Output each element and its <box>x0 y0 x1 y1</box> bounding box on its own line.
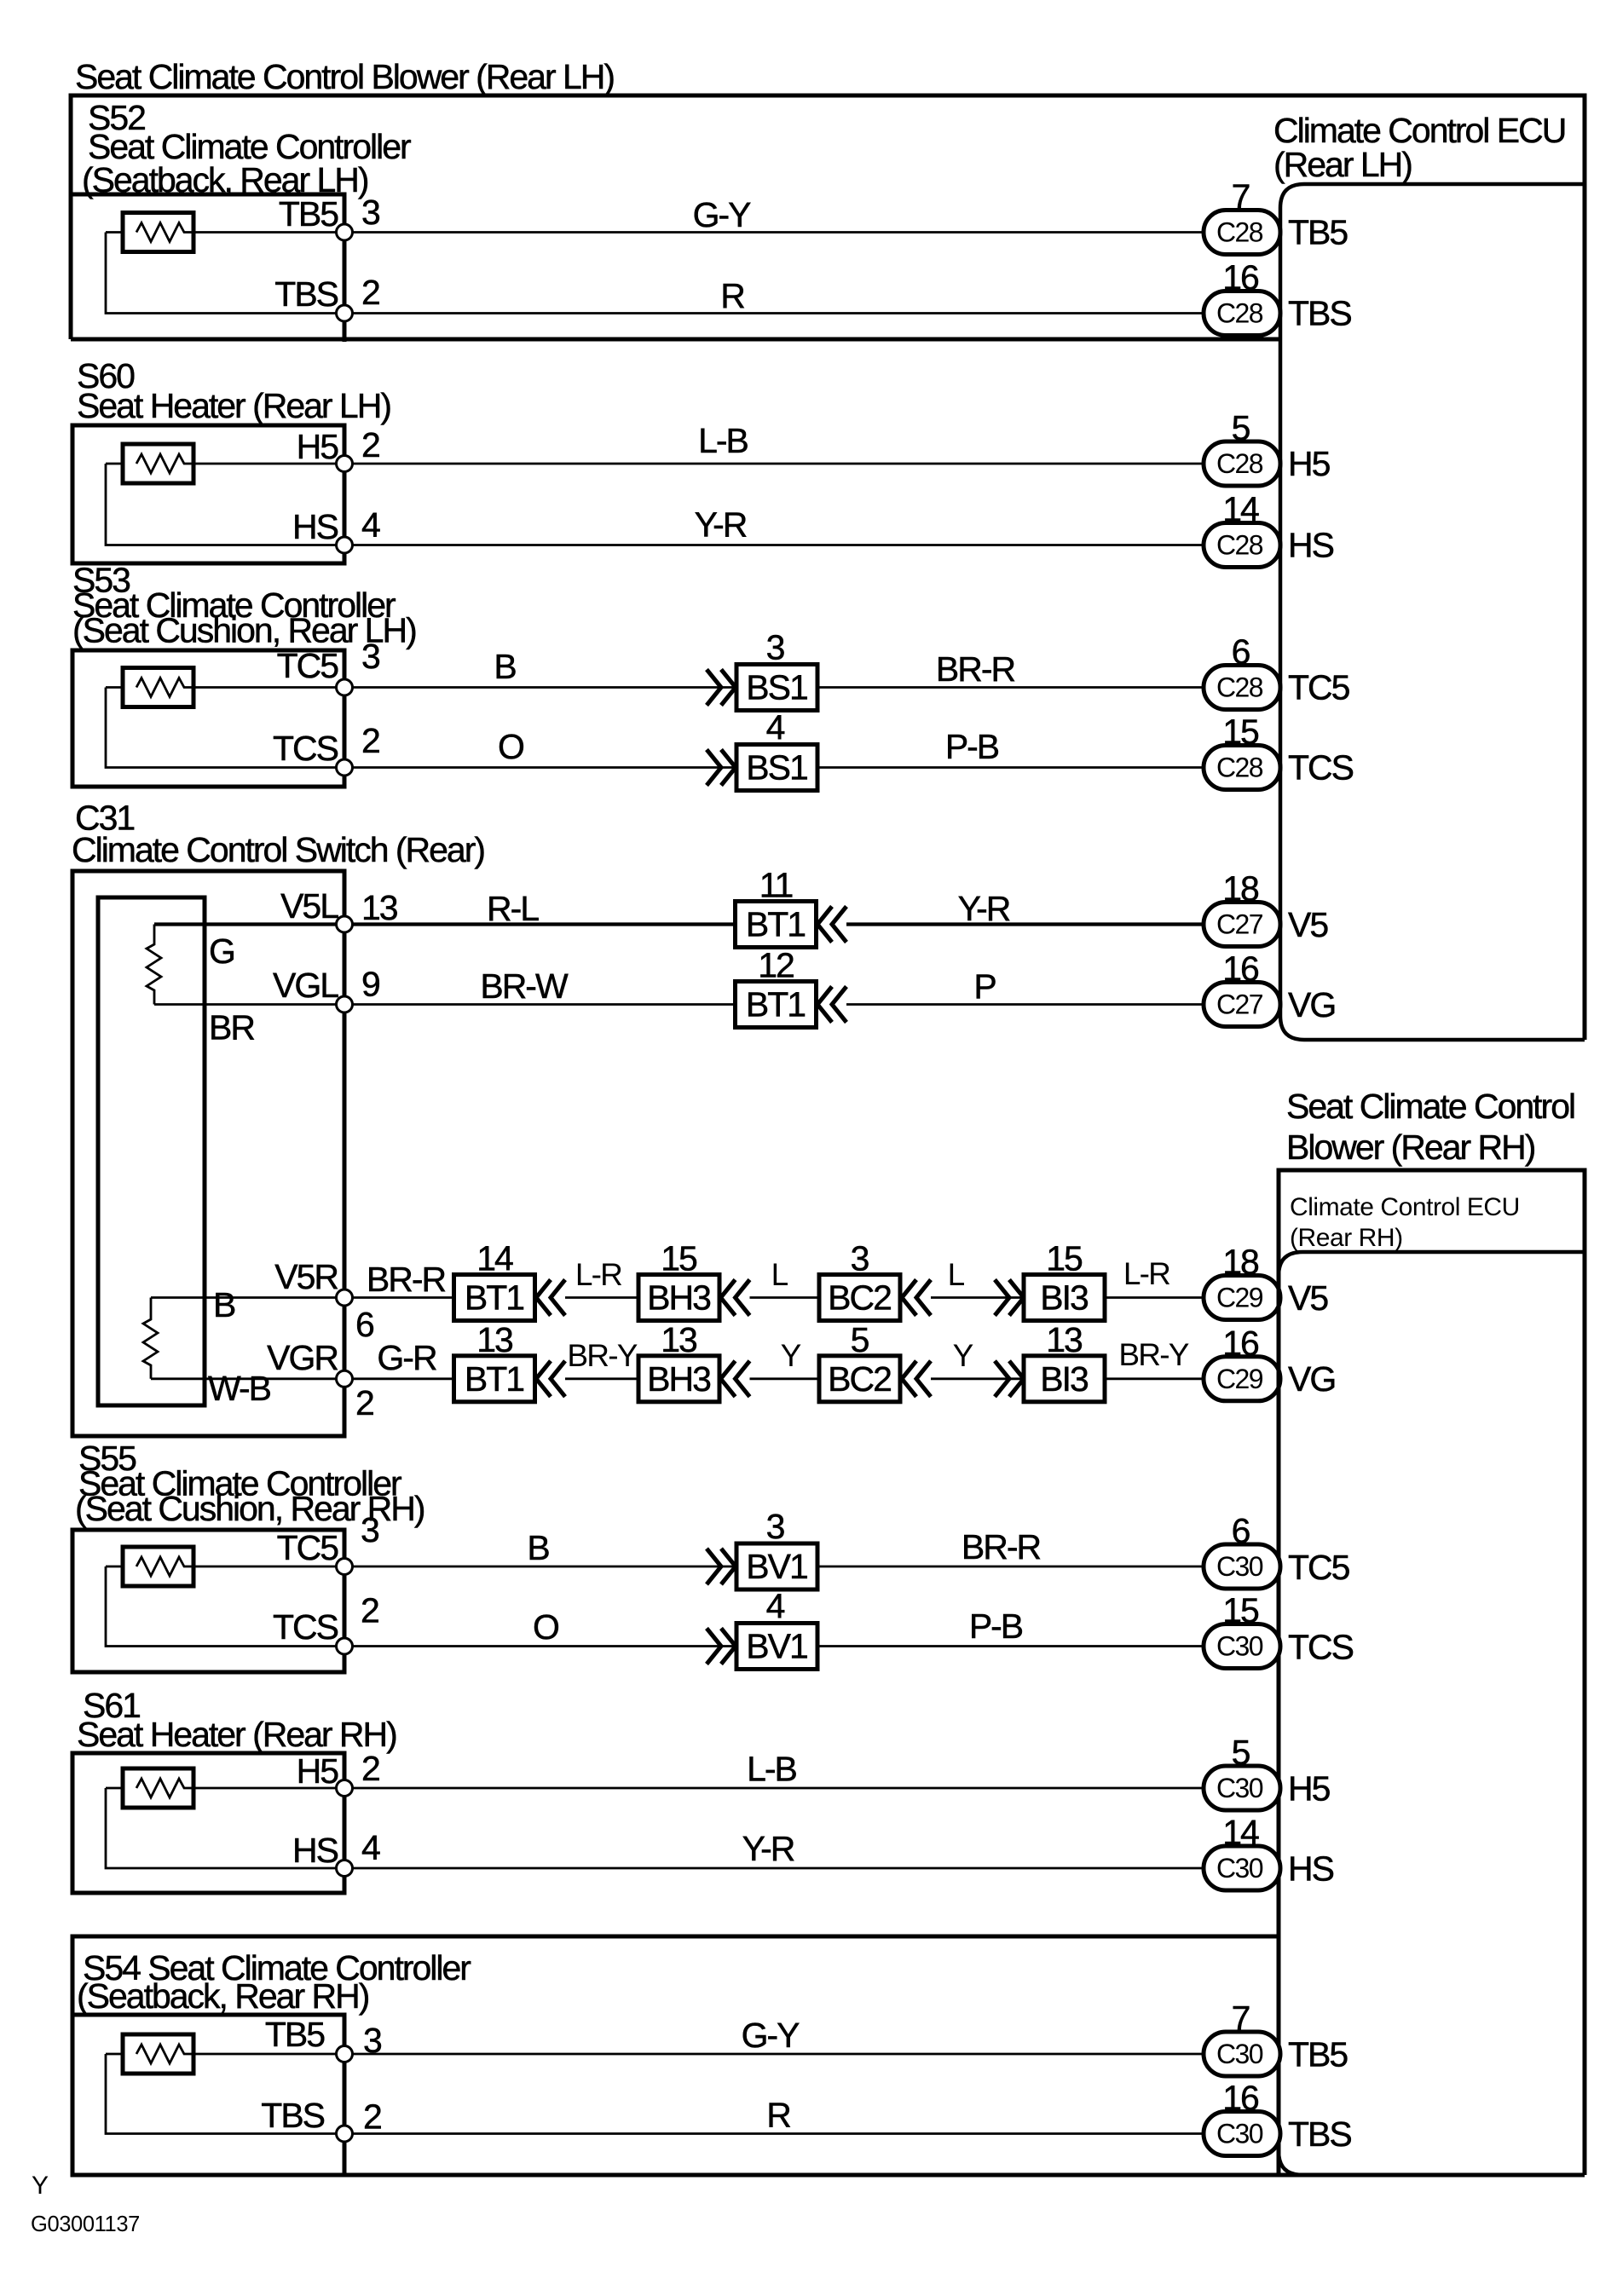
svg-text:C27: C27 <box>1216 909 1263 940</box>
node S54 pin 2 <box>337 2126 353 2142</box>
svg-text:C30: C30 <box>1216 1631 1263 1662</box>
svg-text:3: 3 <box>361 637 379 676</box>
arrows out of BT1 pin 11 <box>817 907 846 943</box>
svg-text:L: L <box>948 1257 965 1292</box>
arrows out of BC2 pin 5 <box>902 1361 931 1397</box>
svg-text:3: 3 <box>766 1507 784 1546</box>
S53 box <box>72 650 344 787</box>
wire R S52 TBS to C28 <box>344 312 1204 314</box>
wire L-B S60 H5 to C28 <box>344 463 1204 465</box>
arrows into BS1 pin 3 <box>707 670 736 706</box>
svg-text:5: 5 <box>851 1320 869 1359</box>
svg-text:O: O <box>498 727 523 766</box>
svg-text:L: L <box>771 1257 788 1292</box>
connector BH3 pin 15 <box>638 1275 719 1321</box>
svg-text:TCS: TCS <box>1288 748 1354 787</box>
wire BR-R BS1 to C28 <box>817 686 1204 689</box>
svg-text:HS: HS <box>1288 526 1334 565</box>
wire V5R internal <box>151 1296 344 1299</box>
node S52 pin 2 <box>337 305 353 321</box>
svg-text:TCS: TCS <box>1288 1628 1354 1667</box>
svg-text:VG: VG <box>1288 985 1335 1024</box>
S52 box <box>71 194 344 342</box>
wire L-B S61 H5 to C30 <box>344 1787 1204 1790</box>
svg-text:H5: H5 <box>1288 444 1331 483</box>
resistor S54 heater element <box>123 2034 193 2074</box>
svg-text:H5: H5 <box>1288 1769 1331 1809</box>
connector BT1 pin 13 <box>454 1356 535 1402</box>
svg-text:Seat Climate Control Blower (R: Seat Climate Control Blower (Rear LH) <box>75 57 614 96</box>
svg-text:TBS: TBS <box>274 274 338 314</box>
svg-text:3: 3 <box>361 1510 378 1549</box>
svg-text:BT1: BT1 <box>746 985 805 1024</box>
node S61 pin 4 <box>337 1860 353 1877</box>
svg-text:BR-R: BR-R <box>936 649 1015 689</box>
wire S52 TB5 loop <box>106 233 344 314</box>
connector BV1 pin 4 <box>736 1624 817 1670</box>
S55 box <box>72 1530 344 1672</box>
svg-text:Climate Control ECU: Climate Control ECU <box>1290 1193 1520 1221</box>
connector C30 pin 6 <box>1204 1544 1280 1589</box>
connector C28 pin 14 <box>1204 523 1280 568</box>
wire P-B BV1 to C30 <box>817 1645 1204 1647</box>
wire L-R BT1 to BH3 <box>565 1296 638 1299</box>
svg-text:TC5: TC5 <box>277 1528 339 1567</box>
wire B S53 TC5 to BS1 <box>344 686 736 689</box>
svg-text:13: 13 <box>476 1320 512 1359</box>
svg-text:2: 2 <box>361 425 379 464</box>
connector C28 pin 7 <box>1204 211 1280 255</box>
node S54 pin 3 <box>337 2046 353 2062</box>
node S53 pin 3 <box>337 679 353 695</box>
wire S54 loop <box>106 2054 344 2134</box>
wire G-Y S54 TB5 to C30 <box>344 2053 1204 2056</box>
connector BI3 pin 13 <box>1024 1356 1105 1402</box>
connector C30 pin 16 <box>1204 2112 1280 2156</box>
connector BT1 pin 11 <box>736 902 817 948</box>
wire VGL internal <box>154 1003 344 1006</box>
svg-text:4: 4 <box>361 505 380 545</box>
connector C27 pin 18 <box>1204 903 1280 947</box>
svg-text:TBS: TBS <box>261 2096 324 2135</box>
svg-text:L-R: L-R <box>1123 1256 1169 1291</box>
node C31 pin 9 <box>337 996 353 1012</box>
wire L BC2 to BI3 <box>931 1296 1024 1299</box>
wire BR-Y BI3 to C29 <box>1105 1377 1204 1380</box>
node S55 pin 3 <box>337 1559 353 1575</box>
wire O S55 TCS to BV1 <box>344 1645 736 1647</box>
svg-text:V5R: V5R <box>274 1257 338 1296</box>
svg-text:14: 14 <box>476 1239 513 1278</box>
connector BS1 pin 4 <box>736 745 817 791</box>
svg-text:2: 2 <box>361 1591 378 1630</box>
svg-text:C30: C30 <box>1216 1853 1263 1884</box>
svg-text:TC5: TC5 <box>277 646 339 685</box>
svg-text:W-B: W-B <box>208 1369 271 1408</box>
svg-text:B: B <box>494 647 516 686</box>
arrows out of BH3 pin 13 <box>721 1361 750 1397</box>
connector BC2 pin 5 <box>819 1356 900 1402</box>
wire Y BH3 to BC2 <box>750 1377 820 1380</box>
connector BT1 pin 12 <box>736 982 817 1028</box>
C31 box <box>72 871 344 1436</box>
svg-text:R: R <box>766 2096 790 2135</box>
svg-text:C28: C28 <box>1216 298 1263 329</box>
arrows into BV1 pin 4 <box>707 1629 736 1664</box>
svg-text:TBS: TBS <box>1288 2114 1351 2154</box>
wire G-R VGR to BT1 <box>344 1377 454 1380</box>
wire P BT1 to C27 <box>846 1003 1204 1006</box>
svg-text:C27: C27 <box>1216 989 1263 1020</box>
connector C30 pin 14 <box>1204 1846 1280 1890</box>
svg-text:VG: VG <box>1288 1359 1335 1399</box>
connector BC2 pin 3 <box>819 1275 900 1321</box>
svg-text:BH3: BH3 <box>647 1278 710 1318</box>
svg-text:HS: HS <box>292 1831 338 1870</box>
wire BR-W VGL to BT1 <box>344 1003 736 1006</box>
svg-text:BR-Y: BR-Y <box>1118 1337 1188 1372</box>
wire G-Y S52 TB5 to C28 <box>344 231 1204 234</box>
arrows into BS1 pin 4 <box>707 750 736 786</box>
svg-text:G-R: G-R <box>377 1338 436 1377</box>
svg-text:BT1: BT1 <box>465 1278 523 1318</box>
svg-text:6: 6 <box>355 1305 373 1344</box>
arrows out of BT1 pin 13 <box>536 1361 565 1397</box>
connector C30 pin 15 <box>1204 1624 1280 1669</box>
connector BT1 pin 14 <box>454 1275 535 1321</box>
svg-text:2: 2 <box>363 2097 381 2137</box>
svg-text:P-B: P-B <box>969 1607 1023 1646</box>
connector C29 pin 16 <box>1204 1357 1280 1401</box>
svg-text:V5L: V5L <box>280 886 338 926</box>
arrows out of BC2 pin 3 <box>902 1280 931 1316</box>
svg-text:15: 15 <box>661 1239 697 1278</box>
wire Y BC2 to BI3 <box>931 1377 1024 1380</box>
svg-text:C29: C29 <box>1216 1283 1263 1313</box>
svg-text:VGL: VGL <box>273 966 338 1005</box>
connector C30 pin 5 <box>1204 1766 1280 1810</box>
svg-text:C29: C29 <box>1216 1364 1263 1394</box>
svg-text:G-Y: G-Y <box>693 195 752 234</box>
node S55 pin 2 <box>337 1638 353 1654</box>
svg-text:BS1: BS1 <box>746 748 807 787</box>
wire Y-R S61 HS to C30 <box>344 1867 1204 1870</box>
S54 box <box>72 2015 344 2175</box>
svg-text:TB5: TB5 <box>1288 213 1348 252</box>
connector BS1 pin 3 <box>736 665 817 711</box>
Climate Control ECU (Rear RH) box <box>1279 1252 1585 2175</box>
connector C28 pin 16 <box>1204 291 1280 336</box>
S61 box <box>72 1753 344 1893</box>
svg-text:TC5: TC5 <box>1288 1548 1350 1587</box>
svg-text:BR-W: BR-W <box>480 966 569 1006</box>
arrows out of BT1 pin 12 <box>817 987 846 1023</box>
svg-text:Seat Heater (Rear LH): Seat Heater (Rear LH) <box>77 386 390 425</box>
svg-text:BV1: BV1 <box>746 1627 807 1666</box>
wire BR-Y BT1 to BH3 <box>565 1377 638 1380</box>
resistor S61 heater element <box>123 1768 193 1808</box>
svg-text:Climate Control Switch (Rear): Climate Control Switch (Rear) <box>72 830 484 869</box>
wire BR-R BV1 to C30 <box>817 1566 1204 1568</box>
svg-text:L-B: L-B <box>698 421 748 460</box>
resistor S60 heater element <box>123 444 193 483</box>
svg-text:BC2: BC2 <box>828 1278 891 1318</box>
svg-text:HS: HS <box>1288 1849 1334 1889</box>
svg-text:G: G <box>209 932 234 971</box>
node S60 pin 4 <box>337 537 353 553</box>
svg-text:TBS: TBS <box>1288 294 1351 333</box>
outer box Seat Climate Control Blower Rear RH <box>1279 1170 1585 2175</box>
svg-text:B: B <box>213 1285 235 1324</box>
svg-text:9: 9 <box>361 965 379 1004</box>
svg-text:BH3: BH3 <box>647 1359 710 1399</box>
wire S61 loop <box>106 1788 344 1868</box>
svg-text:3: 3 <box>766 628 784 667</box>
svg-text:Y: Y <box>953 1338 973 1373</box>
connector C29 pin 18 <box>1204 1276 1280 1320</box>
svg-text:P-B: P-B <box>945 727 999 766</box>
S60 box <box>72 425 344 563</box>
svg-text:H5: H5 <box>297 427 339 466</box>
svg-text:11: 11 <box>759 866 793 905</box>
connector C27 pin 16 <box>1204 983 1280 1027</box>
svg-text:L-B: L-B <box>747 1750 796 1789</box>
svg-text:3: 3 <box>361 193 379 232</box>
svg-text:C28: C28 <box>1216 448 1263 479</box>
node S60 pin 2 <box>337 456 353 472</box>
node S52 pin 3 <box>337 224 353 240</box>
svg-text:Blower (Rear RH): Blower (Rear RH) <box>1286 1128 1535 1167</box>
svg-text:BT1: BT1 <box>746 905 805 944</box>
resistor S52 heater element <box>123 213 193 252</box>
svg-text:G-Y: G-Y <box>742 2016 800 2055</box>
connector C28 pin 15 <box>1204 746 1280 790</box>
outer box bottom section <box>72 1936 1585 2175</box>
svg-text:G03001137: G03001137 <box>31 2212 140 2236</box>
svg-text:VGR: VGR <box>267 1338 338 1377</box>
svg-text:Seat Heater (Rear RH): Seat Heater (Rear RH) <box>77 1715 396 1754</box>
arrows into BI3 pin 15 <box>995 1280 1024 1316</box>
arrows into BI3 pin 13 <box>995 1361 1024 1397</box>
svg-text:12: 12 <box>758 946 794 985</box>
svg-text:R-L: R-L <box>487 889 539 928</box>
svg-text:4: 4 <box>361 1828 380 1867</box>
wire R-L V5L to BT1 <box>344 922 736 926</box>
svg-text:BI3: BI3 <box>1040 1278 1088 1318</box>
resistor C31 blower LH (vertical) <box>147 925 161 1005</box>
svg-text:V5: V5 <box>1288 1278 1328 1318</box>
arrows into BV1 pin 3 <box>707 1549 736 1584</box>
svg-text:4: 4 <box>766 708 785 747</box>
svg-text:R: R <box>720 276 744 315</box>
wire BR-R V5R to BT1 <box>344 1296 454 1299</box>
svg-text:TB5: TB5 <box>279 194 338 234</box>
Climate Control ECU (Rear LH) box <box>1280 184 1585 1040</box>
wire S55 loop <box>106 1566 344 1647</box>
resistor S53 heater element <box>123 668 193 707</box>
svg-text:BR-R: BR-R <box>962 1527 1041 1566</box>
wire S60 loop <box>106 464 344 545</box>
svg-text:4: 4 <box>766 1587 785 1626</box>
svg-text:H5: H5 <box>297 1751 339 1791</box>
svg-text:C30: C30 <box>1216 1773 1263 1803</box>
outer box Seat Climate Control Blower Rear LH <box>71 95 1585 1040</box>
connector C28 pin 6 <box>1204 666 1280 710</box>
svg-text:Y: Y <box>781 1338 801 1373</box>
connector BI3 pin 15 <box>1024 1275 1105 1321</box>
svg-text:HS: HS <box>292 507 338 546</box>
svg-text:BV1: BV1 <box>746 1547 807 1586</box>
node C31 pin 13 <box>337 916 353 932</box>
svg-text:Seat Climate Control: Seat Climate Control <box>1286 1087 1574 1126</box>
svg-text:15: 15 <box>1046 1239 1083 1278</box>
svg-text:BR: BR <box>209 1008 254 1047</box>
node C31 pin 6 <box>337 1289 353 1306</box>
svg-text:B: B <box>527 1528 549 1567</box>
connector BH3 pin 13 <box>638 1356 719 1402</box>
svg-text:13: 13 <box>361 888 397 927</box>
svg-text:(Rear LH): (Rear LH) <box>1273 145 1412 184</box>
wire S53 loop <box>106 688 344 768</box>
connector BV1 pin 3 <box>736 1543 817 1589</box>
wire Y-R S60 HS to C28 <box>344 544 1204 546</box>
svg-text:BR-R: BR-R <box>367 1260 446 1299</box>
resistor C31 blower RH (vertical) <box>143 1298 158 1379</box>
svg-text:BS1: BS1 <box>746 668 807 707</box>
outer box bottom edge LH <box>71 337 1280 342</box>
svg-text:C28: C28 <box>1216 530 1263 561</box>
svg-text:V5: V5 <box>1288 905 1328 944</box>
wire L BH3 to BC2 <box>750 1296 820 1299</box>
svg-text:13: 13 <box>1046 1320 1082 1359</box>
wire Y-R BT1 to C27 <box>846 922 1204 926</box>
svg-text:Y: Y <box>32 2172 49 2200</box>
svg-text:TCS: TCS <box>273 729 338 768</box>
node S61 pin 2 <box>337 1780 353 1797</box>
wire V5L internal <box>154 922 344 926</box>
wire P-B BS1 to C28 <box>817 766 1204 769</box>
svg-text:(Rear RH): (Rear RH) <box>1290 1224 1403 1252</box>
svg-text:3: 3 <box>851 1239 869 1278</box>
svg-text:TB5: TB5 <box>1288 2035 1348 2074</box>
svg-text:BI3: BI3 <box>1040 1359 1088 1399</box>
arrows out of BH3 pin 15 <box>721 1280 750 1316</box>
connector C28 pin 5 <box>1204 441 1280 486</box>
svg-text:C30: C30 <box>1216 2119 1263 2149</box>
wire VGR internal <box>151 1377 344 1380</box>
svg-text:BT1: BT1 <box>465 1359 523 1399</box>
svg-text:P: P <box>973 967 996 1007</box>
connector C30 pin 7 <box>1204 2032 1280 2076</box>
svg-text:2: 2 <box>361 1749 379 1788</box>
svg-text:C28: C28 <box>1216 672 1263 703</box>
svg-text:TCS: TCS <box>273 1607 338 1647</box>
svg-text:(Seatback, Rear RH): (Seatback, Rear RH) <box>77 1976 369 2016</box>
wire R S54 TBS to C30 <box>344 2132 1204 2135</box>
svg-text:2: 2 <box>361 273 379 312</box>
svg-text:BR-Y: BR-Y <box>567 1338 637 1373</box>
node C31 pin 2 <box>337 1370 353 1387</box>
svg-text:C30: C30 <box>1216 2039 1263 2069</box>
svg-text:2: 2 <box>355 1383 373 1422</box>
svg-text:L-R: L-R <box>575 1257 621 1292</box>
svg-text:Y-R: Y-R <box>742 1829 794 1868</box>
svg-text:TC5: TC5 <box>1288 668 1350 707</box>
svg-text:Y-R: Y-R <box>958 889 1010 928</box>
svg-text:Y-R: Y-R <box>695 505 747 545</box>
resistor S55 heater element <box>123 1547 193 1586</box>
wire O S53 TCS to BS1 <box>344 766 736 769</box>
svg-text:2: 2 <box>361 721 379 760</box>
svg-text:BC2: BC2 <box>828 1359 891 1399</box>
C31 switch body inner box <box>98 897 205 1405</box>
node S53 pin 2 <box>337 759 353 776</box>
arrows out of BT1 pin 14 <box>536 1280 565 1316</box>
svg-text:C30: C30 <box>1216 1551 1263 1582</box>
svg-text:C28: C28 <box>1216 217 1263 248</box>
svg-text:C28: C28 <box>1216 753 1263 783</box>
svg-text:13: 13 <box>661 1320 696 1359</box>
wire L-R BI3 to C29 <box>1105 1296 1204 1299</box>
svg-text:TB5: TB5 <box>265 2015 325 2054</box>
svg-text:O: O <box>533 1607 558 1647</box>
wire B S55 TC5 to BV1 <box>344 1566 736 1568</box>
